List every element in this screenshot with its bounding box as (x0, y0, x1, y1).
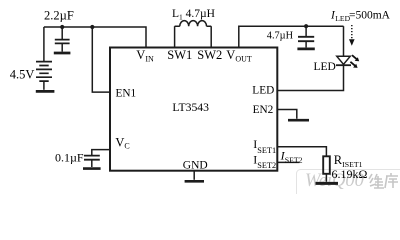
ground (GND pin) (185, 180, 204, 183)
wire: V_C to cap (92, 150, 110, 155)
ground (0.1uF) (83, 167, 101, 170)
wire: ISET2 stub (277, 161, 299, 163)
node: rail-EN1 junction (90, 25, 94, 29)
ground (battery) (36, 90, 55, 93)
ground (EN2) (288, 119, 309, 122)
svg-text:4.7µH: 4.7µH (267, 31, 294, 42)
ground (2.2uF) (54, 52, 71, 55)
node: output cap junction (304, 24, 308, 28)
svg-text:SW2: SW2 (197, 48, 222, 62)
wire: EN2 to ground (277, 110, 297, 119)
LED emission arrows (350, 55, 356, 65)
wire: GND pin to ground (193, 171, 195, 180)
node: rail-cap junction (60, 25, 64, 29)
wire: LED branch down (343, 26, 345, 56)
wire: LED cathode to LED pin (277, 65, 343, 90)
wire: V_OUT riser and output rail (239, 26, 344, 47)
LED D1 (337, 56, 350, 64)
wire: rail to EN1 (92, 27, 110, 92)
svg-text:SW1: SW1 (167, 48, 192, 62)
svg-text:2.2µF: 2.2µF (44, 9, 74, 23)
svg-text:LED: LED (252, 85, 274, 97)
capacitor 4.7uH (output) (305, 26, 307, 36)
ground (resistor) (316, 182, 339, 185)
svg-text:LED: LED (314, 61, 336, 73)
watermark char 库 (385, 173, 398, 188)
IC U1 LT3543 box (110, 48, 277, 171)
svg-text:EN2: EN2 (253, 104, 274, 116)
resistor R_ISET1 (323, 156, 330, 174)
svg-text:SET2: SET2 (285, 155, 303, 164)
capacitor 2.2uF (61, 27, 63, 39)
watermark box (297, 170, 400, 200)
capacitor 0.1uF (84, 156, 100, 160)
svg-text:6.19kΩ: 6.19kΩ (332, 167, 368, 181)
wire: battery rail to V_IN (44, 27, 146, 48)
wire: ISET1 to resistor (277, 147, 326, 157)
wire: SW2 lead (210, 26, 212, 47)
svg-text:=500mA: =500mA (349, 10, 391, 22)
svg-text:LT3543: LT3543 (172, 101, 209, 114)
svg-text:EN1: EN1 (116, 87, 137, 99)
battery B1 4.5V (43, 27, 45, 61)
svg-text:0.1µF: 0.1µF (55, 150, 84, 164)
ground (output cap) (297, 48, 314, 51)
current arrow I_LED (dashed) (351, 25, 353, 39)
svg-text:L1 4.7µH: L1 4.7µH (172, 8, 215, 22)
inductor L1 4.7uH (175, 25, 212, 27)
watermark char 维 (369, 174, 384, 188)
wire: SW1 lead (174, 26, 176, 47)
svg-text:GND: GND (183, 159, 208, 171)
svg-text:4.5V: 4.5V (10, 67, 35, 81)
